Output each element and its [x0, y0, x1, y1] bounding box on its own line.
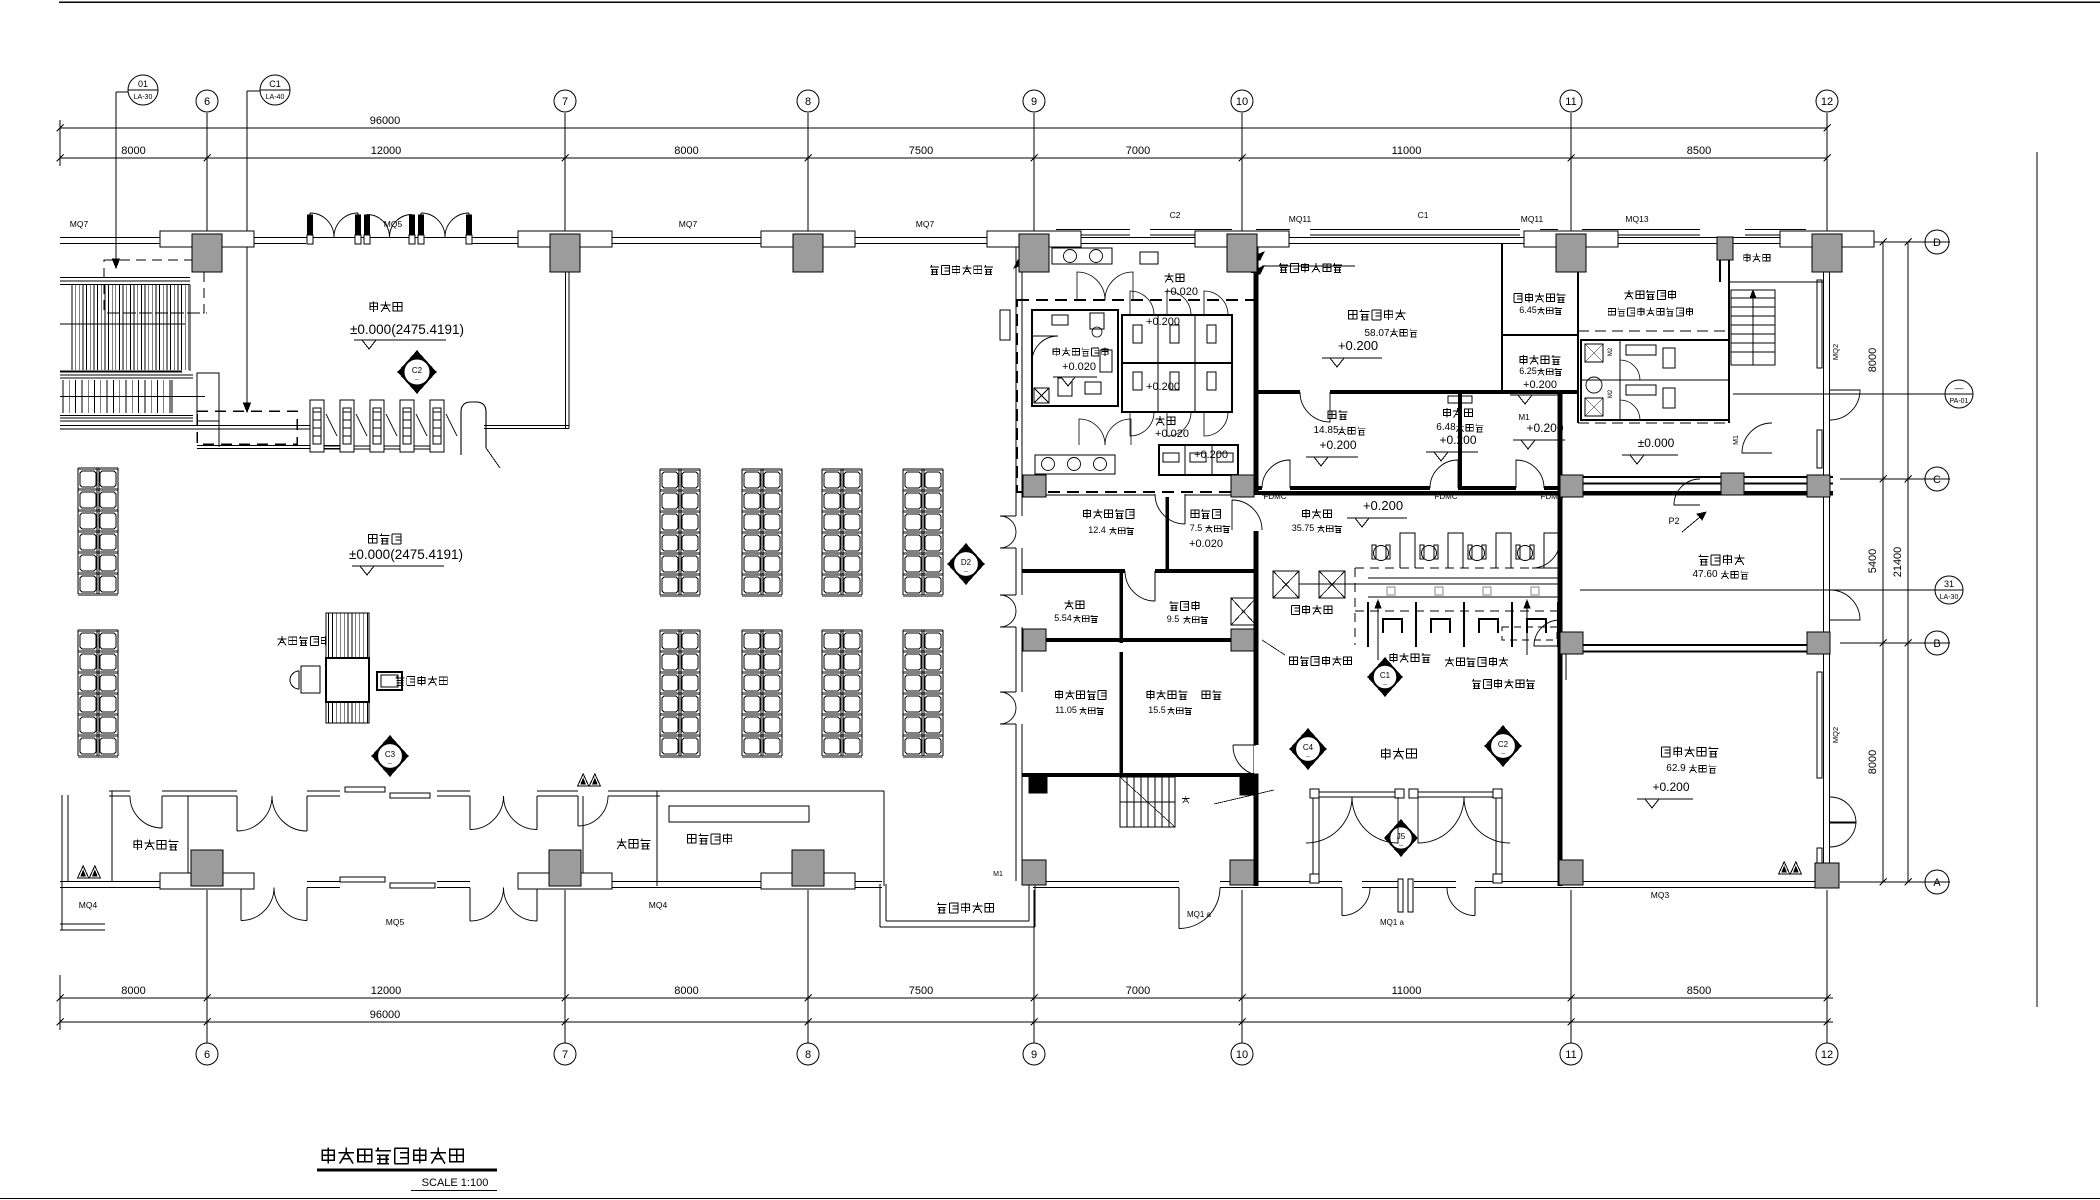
svg-text:8000: 8000	[674, 145, 698, 157]
svg-text:6: 6	[204, 1049, 210, 1061]
svg-text:M2: M2	[1608, 347, 1614, 356]
svg-text:11000: 11000	[1392, 985, 1422, 997]
svg-text:MQ5: MQ5	[386, 917, 405, 927]
svg-text:12000: 12000	[371, 145, 402, 157]
svg-text:8500: 8500	[1687, 985, 1711, 997]
svg-text:7500: 7500	[909, 985, 933, 997]
svg-text:M1: M1	[1518, 413, 1530, 422]
svg-text:8000: 8000	[1867, 348, 1879, 372]
svg-text:+0.200: +0.200	[1439, 433, 1476, 447]
svg-text:8000: 8000	[674, 985, 698, 997]
svg-text:MQ7: MQ7	[70, 219, 89, 229]
svg-text:+0.020: +0.020	[1062, 361, 1096, 373]
svg-text:MQ2: MQ2	[1831, 344, 1840, 360]
svg-text:8000: 8000	[121, 145, 145, 157]
svg-text:±0.000: ±0.000	[1638, 436, 1675, 450]
svg-text:+0.020: +0.020	[1164, 286, 1198, 298]
svg-text:96000: 96000	[370, 1009, 401, 1021]
svg-text:6: 6	[204, 96, 210, 108]
svg-text:C1: C1	[269, 79, 281, 89]
svg-text:8000: 8000	[1867, 750, 1879, 774]
svg-text:10: 10	[1236, 1049, 1248, 1061]
svg-text:11: 11	[1565, 1049, 1576, 1061]
svg-text:MQ13: MQ13	[1625, 214, 1648, 224]
svg-text:FDMC: FDMC	[1263, 492, 1286, 501]
svg-text:MQ7: MQ7	[679, 219, 698, 229]
svg-text:9.5: 9.5	[1167, 614, 1180, 624]
svg-text:6.25: 6.25	[1519, 366, 1537, 376]
svg-text:P2: P2	[1668, 516, 1679, 526]
svg-text:9: 9	[1031, 96, 1037, 108]
svg-text:+0.200: +0.200	[1523, 379, 1557, 391]
svg-text:SCALE 1:100: SCALE 1:100	[422, 1177, 489, 1189]
svg-text:A: A	[1933, 877, 1941, 889]
svg-text:10: 10	[1236, 96, 1248, 108]
svg-text:12000: 12000	[371, 985, 402, 997]
svg-text:MQ4: MQ4	[649, 900, 668, 910]
svg-text:--: --	[1383, 682, 1387, 688]
svg-text:+0.200: +0.200	[1194, 449, 1228, 461]
svg-text:5.54: 5.54	[1054, 613, 1072, 623]
svg-text:—: —	[1955, 383, 1964, 393]
svg-text:MQ3: MQ3	[1651, 890, 1670, 900]
svg-text:7: 7	[562, 1049, 568, 1061]
svg-text:12: 12	[1821, 96, 1833, 108]
svg-text:LA-40: LA-40	[266, 94, 285, 101]
svg-text:21400: 21400	[1892, 547, 1904, 578]
svg-text:+0.200: +0.200	[1526, 421, 1563, 435]
svg-text:11000: 11000	[1392, 145, 1422, 157]
svg-text:7: 7	[562, 96, 568, 108]
svg-text:--: --	[1501, 751, 1505, 757]
svg-text:M1: M1	[1733, 435, 1740, 445]
svg-text:B: B	[1933, 638, 1940, 650]
svg-text:7500: 7500	[909, 145, 933, 157]
svg-text:+0.200: +0.200	[1146, 316, 1180, 328]
svg-text:MQ7: MQ7	[916, 219, 935, 229]
svg-text:8: 8	[805, 96, 811, 108]
svg-text:C2: C2	[1498, 740, 1509, 749]
svg-text:LA-30: LA-30	[134, 94, 153, 101]
svg-text:C3: C3	[385, 750, 396, 759]
svg-text:8: 8	[805, 1049, 811, 1061]
svg-text:7000: 7000	[1126, 985, 1150, 997]
svg-text:M1: M1	[993, 871, 1003, 878]
svg-text:5400: 5400	[1867, 549, 1879, 573]
svg-text:--: --	[388, 761, 392, 767]
svg-text:MQ1 a: MQ1 a	[1187, 910, 1212, 919]
svg-text:14.85: 14.85	[1313, 425, 1338, 436]
svg-text:C2: C2	[412, 366, 423, 375]
svg-text:11.05: 11.05	[1055, 705, 1077, 715]
svg-text:C4: C4	[1303, 743, 1314, 752]
svg-text:01: 01	[138, 79, 148, 89]
svg-text:35.75: 35.75	[1292, 523, 1315, 533]
svg-text:+0.200: +0.200	[1652, 780, 1689, 794]
svg-text:9: 9	[1031, 1049, 1037, 1061]
svg-text:7000: 7000	[1126, 145, 1150, 157]
svg-text:12.4: 12.4	[1088, 525, 1106, 535]
svg-text:LA-30: LA-30	[1940, 594, 1959, 601]
svg-text:+0.200: +0.200	[1146, 381, 1180, 393]
svg-text:+0.020: +0.020	[1189, 538, 1223, 550]
svg-text:+0.200: +0.200	[1319, 438, 1356, 452]
svg-text:+0.200: +0.200	[1338, 338, 1378, 353]
svg-text:8500: 8500	[1687, 145, 1711, 157]
svg-text:+0.020: +0.020	[1155, 428, 1189, 440]
svg-text:C1: C1	[1418, 210, 1429, 220]
svg-text:MQ1 a: MQ1 a	[1380, 918, 1405, 927]
svg-text:62.9: 62.9	[1666, 763, 1686, 774]
svg-text:--: --	[1306, 754, 1310, 760]
svg-text:96000: 96000	[370, 115, 401, 127]
svg-text:MQ11: MQ11	[1289, 214, 1312, 224]
svg-text:--: --	[415, 377, 419, 383]
svg-text:12: 12	[1821, 1049, 1833, 1061]
svg-text:±0.000(2475.4191): ±0.000(2475.4191)	[350, 322, 464, 337]
svg-text:6.48: 6.48	[1436, 422, 1456, 433]
svg-text:--: --	[1399, 843, 1403, 849]
svg-text:M2: M2	[1608, 389, 1614, 398]
svg-text:FDMC: FDMC	[1434, 492, 1457, 501]
svg-text:+0.200: +0.200	[1363, 498, 1403, 513]
svg-text:47.60: 47.60	[1692, 569, 1717, 580]
svg-text:D: D	[1933, 237, 1941, 249]
svg-text:C1: C1	[1380, 671, 1391, 680]
svg-text:8000: 8000	[121, 985, 145, 997]
svg-text:MQ4: MQ4	[79, 900, 98, 910]
svg-text:--: --	[964, 569, 968, 575]
svg-text:±0.000(2475.4191): ±0.000(2475.4191)	[349, 547, 463, 562]
svg-text:6.45: 6.45	[1519, 305, 1537, 315]
svg-text:PA-01: PA-01	[1950, 398, 1969, 405]
svg-text:C: C	[1933, 474, 1941, 486]
svg-text:31: 31	[1944, 579, 1954, 589]
svg-text:7.5: 7.5	[1190, 523, 1203, 533]
svg-text:MQ11: MQ11	[1521, 214, 1544, 224]
svg-text:C2: C2	[1170, 210, 1181, 220]
svg-text:11: 11	[1565, 96, 1576, 108]
svg-text:D2: D2	[961, 558, 972, 567]
svg-text:15.5: 15.5	[1148, 705, 1166, 715]
svg-text:MQ2: MQ2	[1831, 727, 1840, 743]
